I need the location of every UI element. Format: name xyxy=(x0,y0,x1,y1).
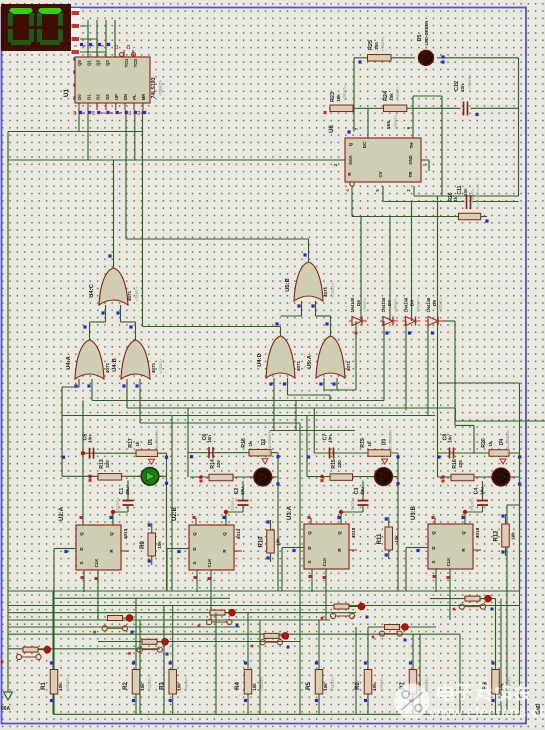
svg-text:10k: 10k xyxy=(140,683,145,691)
svg-text:TCU: TCU xyxy=(124,59,129,68)
svg-text:1k: 1k xyxy=(248,441,253,447)
svg-text:DC: DC xyxy=(362,141,367,148)
svg-text:<TEXT>: <TEXT> xyxy=(363,297,367,312)
svg-text:CLK: CLK xyxy=(322,558,327,567)
svg-text:<TEXT>: <TEXT> xyxy=(230,497,235,513)
svg-text:Q: Q xyxy=(222,532,227,536)
svg-text:R20: R20 xyxy=(481,438,487,448)
svg-text:10k: 10k xyxy=(394,535,399,543)
svg-text:LED-GREEN: LED-GREEN xyxy=(388,430,393,454)
svg-text:74LS193: 74LS193 xyxy=(151,77,157,98)
svg-text:U4:D: U4:D xyxy=(257,353,263,367)
svg-text:Q: Q xyxy=(461,531,466,535)
svg-text:<TEXT>: <TEXT> xyxy=(184,676,189,692)
svg-text:<TEXT>: <TEXT> xyxy=(65,676,70,692)
svg-text:4071: 4071 xyxy=(151,362,156,373)
svg-text:<TEXT>: <TEXT> xyxy=(467,74,472,90)
svg-text:4071: 4071 xyxy=(346,360,351,371)
svg-text:1N4148: 1N4148 xyxy=(404,297,409,312)
svg-text:4071: 4071 xyxy=(105,362,110,373)
svg-text:TH: TH xyxy=(409,143,414,149)
svg-text:D8: D8 xyxy=(410,300,415,306)
svg-text:R12: R12 xyxy=(494,530,500,542)
svg-text:GOA: GOA xyxy=(348,155,353,165)
svg-text:10k: 10k xyxy=(276,538,281,546)
svg-text:10k: 10k xyxy=(177,683,182,691)
svg-text:R9: R9 xyxy=(140,541,146,549)
svg-text:Q1: Q1 xyxy=(86,60,91,66)
svg-text:R4: R4 xyxy=(235,682,241,690)
svg-text:S: S xyxy=(192,561,197,564)
svg-text:Q: Q xyxy=(307,531,312,535)
svg-text:13: 13 xyxy=(126,44,131,49)
svg-text:CLK: CLK xyxy=(446,558,451,567)
svg-text:<TEXT>: <TEXT> xyxy=(330,676,335,692)
svg-text:1k: 1k xyxy=(488,441,493,447)
svg-text:4013: 4013 xyxy=(475,527,481,538)
svg-text:<TEXT>: <TEXT> xyxy=(417,297,421,312)
svg-text:Q: Q xyxy=(109,532,114,536)
svg-text:R11: R11 xyxy=(377,533,383,544)
svg-text:<TEXT>: <TEXT> xyxy=(158,80,163,96)
svg-text:10k: 10k xyxy=(511,532,516,540)
svg-text:S: S xyxy=(307,560,312,563)
svg-text:D3: D3 xyxy=(105,94,110,100)
svg-text:Q: Q xyxy=(192,532,197,536)
svg-text:<TEXT>: <TEXT> xyxy=(350,497,355,513)
svg-text:Q0: Q0 xyxy=(77,60,82,66)
svg-text:12: 12 xyxy=(114,44,119,49)
svg-text:10u: 10u xyxy=(480,487,485,495)
svg-text:R19: R19 xyxy=(360,438,366,448)
svg-text:U4:A: U4:A xyxy=(66,355,72,369)
svg-text:U5:A: U5:A xyxy=(307,354,313,368)
svg-text:UP: UP xyxy=(114,94,119,100)
svg-text:DN: DN xyxy=(123,94,128,100)
svg-text:S: S xyxy=(79,561,84,564)
svg-text:D9: D9 xyxy=(432,300,437,306)
svg-text:D5: D5 xyxy=(417,34,423,41)
svg-text:D6: D6 xyxy=(356,300,361,306)
svg-text:R2: R2 xyxy=(123,682,129,690)
svg-text:10: 10 xyxy=(90,110,95,115)
svg-text:TCD: TCD xyxy=(133,59,138,68)
svg-text:<TEXT>: <TEXT> xyxy=(147,676,152,692)
svg-text:D1: D1 xyxy=(86,94,91,100)
svg-text:D2: D2 xyxy=(96,94,101,100)
svg-text:Q: Q xyxy=(431,531,436,535)
svg-text:Q: Q xyxy=(348,142,353,146)
svg-text:220: 220 xyxy=(216,460,221,468)
svg-text:www.elecfans.com: www.elecfans.com xyxy=(428,705,545,720)
svg-text:Q: Q xyxy=(79,532,84,536)
svg-text:14: 14 xyxy=(136,110,141,115)
svg-text:LED-GREEN: LED-GREEN xyxy=(267,430,272,454)
svg-text:<TEXT>: <TEXT> xyxy=(470,497,475,513)
svg-text:MR: MR xyxy=(141,94,146,101)
svg-text:U5:B: U5:B xyxy=(285,278,291,292)
svg-text:<TEXT>: <TEXT> xyxy=(330,282,335,298)
svg-text:CLK: CLK xyxy=(207,559,212,568)
svg-text:4013: 4013 xyxy=(351,527,357,538)
svg-text:PL: PL xyxy=(132,94,137,100)
svg-text:4071: 4071 xyxy=(323,286,328,297)
svg-text:1k: 1k xyxy=(367,441,372,447)
svg-text:Q3: Q3 xyxy=(105,60,110,66)
svg-text:TR: TR xyxy=(408,171,413,178)
svg-text:CLK: CLK xyxy=(94,559,99,568)
svg-text:R17: R17 xyxy=(128,438,134,448)
svg-text:<TEXT>: <TEXT> xyxy=(380,36,385,52)
svg-text:D0: D0 xyxy=(77,94,82,100)
svg-text:10k: 10k xyxy=(157,541,162,549)
svg-text:<TEXT>: <TEXT> xyxy=(158,358,163,374)
svg-text:4013: 4013 xyxy=(236,528,242,539)
svg-text:U3:A: U3:A xyxy=(287,505,293,520)
svg-text:1N4148: 1N4148 xyxy=(426,297,431,312)
svg-text:U6: U6 xyxy=(329,125,335,133)
svg-text:10u: 10u xyxy=(125,487,130,495)
svg-text:U1: U1 xyxy=(63,88,70,97)
svg-text:www.elecfans: www.elecfans xyxy=(475,184,480,208)
svg-text:U4:B: U4:B xyxy=(112,358,118,372)
svg-text:R18: R18 xyxy=(241,438,247,448)
svg-text:<TEXT>: <TEXT> xyxy=(393,114,398,130)
svg-text:1k: 1k xyxy=(453,196,458,201)
svg-text:4013: 4013 xyxy=(123,528,129,539)
svg-text:10k: 10k xyxy=(336,94,341,102)
svg-text:10k: 10k xyxy=(58,683,63,691)
svg-text:U4:C: U4:C xyxy=(89,283,95,297)
svg-text:GND: GND xyxy=(408,155,413,164)
svg-text:CV: CV xyxy=(378,171,383,177)
svg-text:4071: 4071 xyxy=(127,290,132,301)
svg-text:10u: 10u xyxy=(360,487,365,495)
svg-text:10n: 10n xyxy=(88,435,93,443)
svg-text:1N4148: 1N4148 xyxy=(381,297,386,312)
svg-text:<TEXT>: <TEXT> xyxy=(379,676,384,692)
svg-text:<TEXT>: <TEXT> xyxy=(115,497,120,513)
svg-text:Q: Q xyxy=(337,531,342,535)
svg-text:LED-GREEN: LED-GREEN xyxy=(424,21,429,46)
svg-text:220: 220 xyxy=(105,460,110,468)
svg-text:R5: R5 xyxy=(306,682,312,690)
svg-text:10k: 10k xyxy=(389,93,394,101)
svg-text:10n: 10n xyxy=(207,435,212,443)
svg-text:10n: 10n xyxy=(448,435,453,443)
svg-text:10u: 10u xyxy=(240,487,245,495)
svg-text:<TEXT>: <TEXT> xyxy=(353,356,358,372)
svg-text:4071: 4071 xyxy=(296,360,301,371)
svg-text:10k: 10k xyxy=(323,683,328,691)
svg-text:555: 555 xyxy=(386,121,392,129)
svg-text:<TEXT>: <TEXT> xyxy=(395,86,400,102)
svg-text:220: 220 xyxy=(337,460,342,468)
svg-text:R3: R3 xyxy=(160,682,166,690)
svg-text:10n: 10n xyxy=(460,84,465,92)
svg-text:220: 220 xyxy=(458,460,463,468)
svg-text:U2:A: U2:A xyxy=(59,506,65,521)
svg-text:10n: 10n xyxy=(463,188,468,196)
svg-text:R10: R10 xyxy=(259,536,265,548)
svg-text:10n: 10n xyxy=(328,435,333,443)
svg-text:U3:B: U3:B xyxy=(411,505,417,520)
svg-text:00A: 00A xyxy=(1,706,11,712)
svg-text:LED-GREEN: LED-GREEN xyxy=(505,430,510,454)
svg-text:10k: 10k xyxy=(252,683,257,691)
svg-text:<TEXT>: <TEXT> xyxy=(342,85,347,101)
svg-text:S: S xyxy=(431,560,436,563)
svg-text:LED-GREEN: LED-GREEN xyxy=(154,430,159,454)
svg-text:<TEXT>: <TEXT> xyxy=(439,297,443,312)
svg-text:1N4148: 1N4148 xyxy=(350,297,355,312)
svg-text:<TEXT>: <TEXT> xyxy=(394,297,398,312)
svg-text:<TEXT>: <TEXT> xyxy=(134,286,139,302)
svg-text:D7: D7 xyxy=(387,300,392,306)
svg-text:10k: 10k xyxy=(372,683,377,691)
svg-text:R1: R1 xyxy=(41,682,47,690)
svg-text:200: 200 xyxy=(374,42,379,50)
svg-text:Q2: Q2 xyxy=(96,60,101,66)
svg-text:1k: 1k xyxy=(135,441,140,447)
svg-text:U2:B: U2:B xyxy=(172,506,178,521)
svg-text:15: 15 xyxy=(72,110,77,115)
